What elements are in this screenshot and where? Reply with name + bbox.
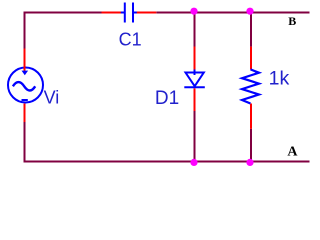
pin D1 bottom (red): [194, 88, 196, 111]
wire top-left horizontal segment: [24, 12, 102, 14]
pin Vi top (red): [24, 49, 26, 72]
pin Vi bottom (red): [24, 104, 26, 123]
wire bottom segment (node A net): [24, 161, 310, 163]
svg-text:B: B: [288, 14, 296, 28]
svg-text:1k: 1k: [269, 68, 290, 90]
pin C1 right (red): [137, 12, 157, 14]
pin C1 left (red): [102, 12, 122, 14]
junction dot top resistor node: [246, 8, 253, 15]
wire resistor branch upper segment: [250, 12, 252, 47]
wire top-right segment (node B net): [156, 12, 309, 14]
svg-text:C1: C1: [119, 30, 142, 50]
svg-text:Vi: Vi: [44, 88, 60, 108]
voltage source polarity arrow: [22, 71, 29, 76]
diode D1: [184, 70, 205, 88]
svg-text:A: A: [287, 145, 298, 160]
wire diode branch lower segment: [194, 111, 196, 163]
wire left vertical upper segment: [24, 12, 26, 49]
pin R1 bottom (red): [250, 104, 252, 129]
voltage source Vi body: [8, 68, 43, 103]
wire left vertical lower segment: [24, 122, 26, 163]
wire resistor branch lower segment: [250, 129, 252, 163]
pin R1 top (red): [250, 47, 252, 70]
capacitor C1: [121, 3, 137, 23]
junction dot bottom resistor node: [246, 159, 253, 166]
svg-text:D1: D1: [155, 88, 179, 109]
pin D1 top (red): [194, 47, 196, 71]
wire diode branch upper segment: [194, 12, 196, 47]
junction dot bottom diode node: [190, 159, 197, 166]
junction dot top diode node: [190, 8, 197, 15]
resistor R1: [242, 69, 259, 103]
